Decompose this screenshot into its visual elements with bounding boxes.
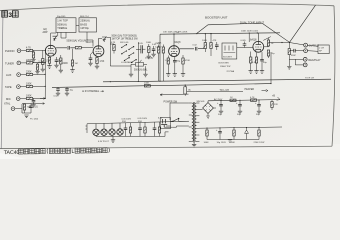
V2 bypass cap C15 xyxy=(173,57,181,74)
svg-text:SOCKET: SOCKET xyxy=(223,57,233,59)
bias resistor R29 xyxy=(204,128,210,144)
svg-text:1 HI TOP: 1 HI TOP xyxy=(57,19,68,23)
grounds mid xyxy=(147,56,151,59)
tone box B1 xyxy=(56,16,76,33)
input jack J5 MIC xyxy=(6,97,20,101)
svg-text:500K(A) BAL: 500K(A) BAL xyxy=(134,69,148,72)
svg-text:1M 50μ: 1M 50μ xyxy=(80,26,89,30)
pilot lamp L3 xyxy=(109,123,115,136)
coupling capacitor C8 xyxy=(68,46,69,50)
ground lamp return xyxy=(111,140,115,143)
pilot lamp L2 xyxy=(101,123,107,136)
filter cap C20 xyxy=(217,101,223,116)
svg-text:12AU7 PW: 12AU7 PW xyxy=(220,65,230,68)
svg-text:R06 C14: R06 C14 xyxy=(80,16,89,18)
svg-text:250V: 250V xyxy=(155,43,160,45)
rotary switch SW1 contacts xyxy=(120,42,137,63)
svg-text:L CH: L CH xyxy=(319,48,324,50)
svg-text:PHONO: PHONO xyxy=(5,49,15,53)
capacitor C17 xyxy=(215,42,219,50)
svg-text:TO L CH: TO L CH xyxy=(220,89,230,92)
coupling wire V2 out xyxy=(179,48,203,49)
svg-text:100K: 100K xyxy=(204,142,210,144)
capacitor C6 xyxy=(29,104,38,111)
wire from top right xyxy=(290,5,316,42)
svg-text:4.7K: 4.7K xyxy=(111,42,116,44)
svg-text:BOOSTER UNIT: BOOSTER UNIT xyxy=(205,16,228,20)
frame bottom edge xyxy=(0,146,332,148)
coupling capacitor C16 xyxy=(193,45,198,51)
row6 end arrow xyxy=(31,103,45,105)
output wire xyxy=(269,43,304,45)
L channel wire xyxy=(187,90,268,92)
bridge rectifier D1-D4 xyxy=(197,98,223,118)
svg-text:100K: 100K xyxy=(144,82,150,84)
heater resistor R28b xyxy=(144,122,146,136)
row5 end arrow xyxy=(40,98,45,100)
grid drop V3 xyxy=(248,33,250,42)
svg-text:22K: 22K xyxy=(274,104,278,106)
svg-text:2.7K: 2.7K xyxy=(45,61,50,63)
triode V1b xyxy=(86,41,104,57)
svg-text:TAC40: TAC40 xyxy=(4,150,20,156)
triode V1a xyxy=(45,45,56,56)
resistor R27 xyxy=(271,100,279,110)
+B arrow xyxy=(277,97,280,100)
svg-text:PC 1200: PC 1200 xyxy=(30,119,39,121)
svg-text:22 PWA: 22 PWA xyxy=(227,70,235,73)
wires tone boxes xyxy=(51,26,93,47)
svg-text:100K 220K 0.005: 100K 220K 0.005 xyxy=(241,31,259,33)
heater bus xyxy=(87,121,189,124)
B+ bus xyxy=(160,33,280,34)
capacitor C12 xyxy=(54,87,61,97)
resistor R4 xyxy=(26,83,33,88)
output coupling capacitor C18b xyxy=(267,50,275,58)
V3 resistor R22 xyxy=(252,52,258,70)
svg-text:220K: 220K xyxy=(26,59,32,62)
svg-text:0.05 100V: 0.05 100V xyxy=(138,118,148,120)
left B+ drop xyxy=(159,34,161,81)
input jack J6 PHONO2 xyxy=(4,102,15,111)
svg-text:LOUDNESS: LOUDNESS xyxy=(121,62,134,64)
svg-text:100K: 100K xyxy=(146,42,152,44)
filter resistor R26 xyxy=(250,97,257,102)
svg-text:35Ω: 35Ω xyxy=(122,121,126,123)
shunt resistor R23b xyxy=(288,49,290,55)
capacitor C13 xyxy=(65,87,74,96)
terminal T4 xyxy=(303,63,307,67)
wire bottom-left net xyxy=(22,104,31,114)
node line N1 xyxy=(107,37,111,57)
svg-text:TAPE: TAPE xyxy=(5,85,12,89)
output coupling resistor R23 xyxy=(264,38,274,47)
svg-text:100K: 100K xyxy=(202,40,208,42)
power transformer PT1 xyxy=(189,102,200,143)
svg-text:0.05 100V: 0.05 100V xyxy=(122,119,132,121)
trimmer TC0 under box1 xyxy=(53,36,58,41)
svg-text:XTAL: XTAL xyxy=(4,102,11,106)
svg-text:330P: 330P xyxy=(291,55,296,57)
svg-text:220K: 220K xyxy=(26,71,32,74)
heater cap C24 xyxy=(138,123,142,137)
heater resistor R28c xyxy=(158,122,160,136)
ground shunt xyxy=(287,67,291,70)
svg-text:to R CHANNEL: to R CHANNEL xyxy=(82,90,100,93)
junction rail to PSU xyxy=(185,85,186,86)
coupling wire V1a to V1b xyxy=(56,47,93,49)
bias rail xyxy=(199,127,282,128)
wire BX1 to V3 xyxy=(237,47,253,49)
capacitor C19 xyxy=(289,49,303,57)
svg-text:1M: 1M xyxy=(75,63,78,65)
rec feed vertical xyxy=(270,52,272,84)
svg-text:6AQ8: 6AQ8 xyxy=(250,39,257,42)
svg-text:250K(A): 250K(A) xyxy=(80,19,89,23)
resistor R20 xyxy=(210,34,217,56)
svg-text:6.3V: 6.3V xyxy=(158,118,163,120)
V3 plate wire xyxy=(257,33,259,41)
triode V2 xyxy=(169,32,181,56)
svg-text:470K: 470K xyxy=(185,60,191,62)
svg-text:100K: 100K xyxy=(26,95,32,98)
capacitor C11 xyxy=(152,44,157,54)
resistor R6 xyxy=(23,104,32,110)
V3 capacitor C18 xyxy=(260,52,267,70)
resistor R19 xyxy=(202,34,208,52)
figure number 第3図 xyxy=(2,11,18,19)
heater return wire xyxy=(160,94,189,96)
svg-text:1M TOP 1M TREBLE SW: 1M TOP 1M TREBLE SW xyxy=(112,39,139,41)
bias resistor R31 xyxy=(254,127,266,144)
heater cap C24c xyxy=(153,122,157,136)
speaker label box xyxy=(318,45,329,54)
svg-text:56K: 56K xyxy=(231,142,235,144)
feedback diagonal xyxy=(263,37,271,41)
svg-text:6.3V PILOT: 6.3V PILOT xyxy=(98,141,110,143)
tone box B2 xyxy=(79,16,97,32)
svg-text:AMP: AMP xyxy=(43,31,48,34)
lamp return line xyxy=(96,135,165,137)
AC plug PL1 xyxy=(160,118,172,129)
resistor R1 xyxy=(26,47,33,52)
bias ground rail xyxy=(207,139,259,141)
input jack J3 AUX xyxy=(6,73,20,77)
svg-text:TUNER: TUNER xyxy=(5,61,14,65)
svg-text:220K 1/2W: 220K 1/2W xyxy=(254,142,266,144)
svg-text:3: 3 xyxy=(8,12,12,19)
balance pot P1 xyxy=(131,60,148,72)
svg-text:AUX: AUX xyxy=(6,73,12,77)
frame top edge xyxy=(0,4,334,11)
svg-text:0.005: 0.005 xyxy=(241,40,247,42)
resistor R15 xyxy=(162,45,164,58)
bias diode D5 xyxy=(245,128,249,140)
selector switch bus xyxy=(40,50,46,98)
V2 grid resistor R18 xyxy=(182,55,191,74)
svg-text:3.3K: 3.3K xyxy=(252,62,257,64)
svg-text:SW 50Ω: SW 50Ω xyxy=(197,101,205,103)
input jack J4 TAPE xyxy=(5,85,20,89)
wire J1 to selector xyxy=(21,49,45,51)
resistor R12 xyxy=(110,42,115,54)
resistor R2 xyxy=(26,59,33,64)
ground G6 xyxy=(24,115,28,118)
B+ rail xyxy=(208,100,280,101)
svg-text:220K: 220K xyxy=(63,63,69,65)
R-channel rail xyxy=(52,84,271,88)
svg-text:3.3M: 3.3M xyxy=(38,62,43,64)
grid capacitor C9 xyxy=(89,55,93,64)
filter cap C21 xyxy=(236,100,242,116)
terminal T1 OUTPUT xyxy=(304,43,308,47)
V2 plate wire xyxy=(173,34,175,46)
triode V3 xyxy=(250,39,264,53)
svg-text:12AX7: 12AX7 xyxy=(86,41,94,44)
heater end stub xyxy=(165,132,169,137)
svg-text:HEATER: HEATER xyxy=(245,88,255,91)
wire J3 to selector xyxy=(21,73,45,75)
filter resistor R25 xyxy=(230,97,236,102)
svg-text:1.2K: 1.2K xyxy=(165,60,170,62)
ground of R8 xyxy=(47,66,51,69)
paper background xyxy=(0,0,340,159)
V3 cathode resistor R21 xyxy=(250,52,252,71)
resistor R14 xyxy=(157,43,162,58)
svg-text:TO R CH: TO R CH xyxy=(305,78,314,80)
grid cap V3 xyxy=(241,40,247,48)
terminal T2 xyxy=(304,49,308,53)
bias cap C25 xyxy=(216,128,226,144)
fuse F1 xyxy=(184,85,191,96)
svg-text:500K(A): 500K(A) xyxy=(57,22,66,26)
wire J4 xyxy=(21,85,41,87)
resistor R13 xyxy=(146,42,152,56)
node line N2 xyxy=(137,42,139,60)
svg-text:100K: 100K xyxy=(26,83,32,86)
input jack J1 PHONO xyxy=(5,49,21,53)
pilot lamp L1 xyxy=(93,124,99,137)
caption TAC40の全回路図 xyxy=(4,148,110,156)
wire J2 to selector xyxy=(21,62,45,64)
capacitor C10 xyxy=(136,43,145,53)
svg-text:47K: 47K xyxy=(213,40,217,42)
primary top wire xyxy=(170,103,189,120)
svg-text:50μ R05: 50μ R05 xyxy=(57,16,66,18)
svg-text:L: L xyxy=(71,149,74,155)
shunt resistor R1a xyxy=(31,50,35,62)
resistor R5 xyxy=(26,95,33,100)
svg-text:12AX7: 12AX7 xyxy=(155,45,162,48)
grid leak resistor R10b xyxy=(70,49,77,73)
input jack J2 TUNER xyxy=(5,61,21,65)
booster top outline wire xyxy=(196,23,290,42)
svg-text:MIC: MIC xyxy=(6,97,11,101)
svg-text:TREBLE: TREBLE xyxy=(57,26,67,30)
svg-text:1.5K: 1.5K xyxy=(100,61,105,63)
V2 cathode resistor R17 xyxy=(165,56,170,74)
terminal wires xyxy=(289,45,318,65)
wire J6 xyxy=(15,104,22,113)
shunt column xyxy=(288,43,290,67)
booster connector box BX1 xyxy=(222,43,237,59)
svg-text:10μ 150V: 10μ 150V xyxy=(217,142,227,144)
frame right edge xyxy=(332,6,335,146)
heater resistor R28a xyxy=(129,123,131,137)
terminal T3 REC xyxy=(303,57,307,61)
shunt resistor R2a xyxy=(35,63,39,74)
svg-text:4.7K: 4.7K xyxy=(26,47,31,50)
V1b plate feed wire xyxy=(99,39,103,46)
filter cap C22 xyxy=(255,100,261,116)
trimmer TC1 xyxy=(102,36,107,42)
resistor R3 xyxy=(26,71,33,76)
ground for R7 xyxy=(41,69,45,72)
grid resistor R7 xyxy=(38,59,44,65)
svg-text:+B: +B xyxy=(272,95,275,98)
svg-text:REC/PLAY: REC/PLAY xyxy=(308,59,321,62)
power switch SW2 xyxy=(172,118,189,127)
svg-text:SW 0.05: SW 0.05 xyxy=(120,42,129,44)
cathode resistor R8 of V1a xyxy=(45,57,50,63)
cathode resistor R11 of V1b xyxy=(96,58,105,64)
row5 shunt cap xyxy=(31,98,35,107)
svg-text:500K Ω(A) TOP 500K(B): 500K Ω(A) TOP 500K(B) xyxy=(112,35,137,38)
frame left edge xyxy=(1,11,3,149)
svg-text:6AQ8: 6AQ8 xyxy=(175,41,182,44)
svg-text:10K 100K 22K 47K 220K: 10K 100K 22K 47K 220K xyxy=(163,32,188,34)
bypass capacitor C7 xyxy=(55,57,63,65)
wire J5 xyxy=(20,97,40,99)
svg-text:4.7K: 4.7K xyxy=(250,97,255,99)
resistor R16 on rail xyxy=(144,82,150,87)
bias resistor R30 xyxy=(231,128,235,144)
plate resistor R9 of V1a xyxy=(60,58,69,65)
heater cap C23 xyxy=(124,123,128,136)
series resistor R10 xyxy=(75,47,81,49)
svg-text:BASS: BASS xyxy=(80,22,87,26)
pilot lamp L4 xyxy=(117,123,123,136)
ground rail left xyxy=(103,79,331,82)
svg-text:BOOSTER: BOOSTER xyxy=(219,63,230,65)
svg-text:EQ: EQ xyxy=(44,29,48,31)
